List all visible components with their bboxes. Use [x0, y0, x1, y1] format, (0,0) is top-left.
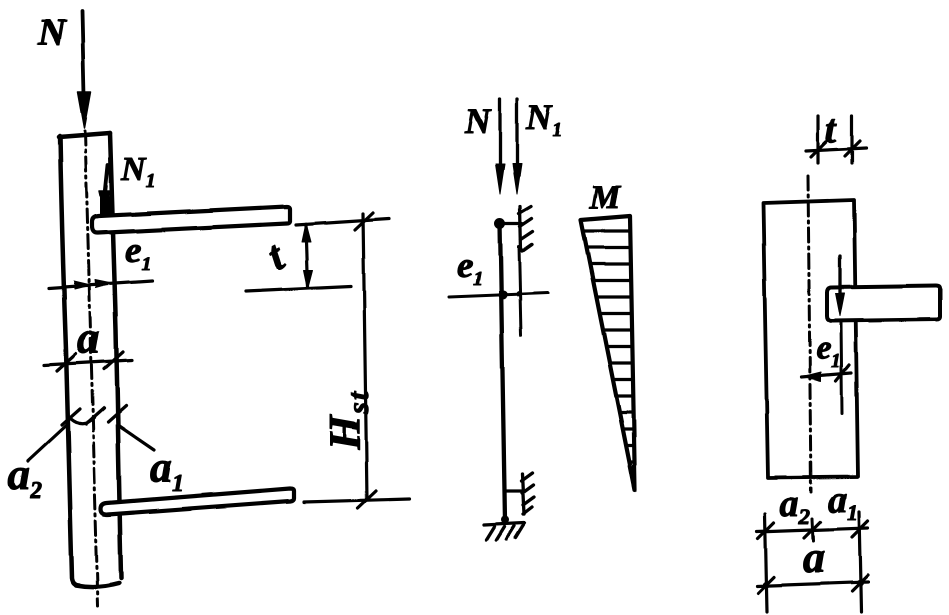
- t dimension (section): extension lines and dim line: [806, 116, 866, 163]
- section centerline (dash-dot): [808, 176, 811, 492]
- svg-text:N1: N1: [120, 151, 156, 192]
- svg-text:a2: a2: [780, 483, 810, 529]
- svg-text:e1: e1: [457, 245, 483, 290]
- beam entering section: [827, 286, 940, 322]
- top support link and hatching: [500, 206, 533, 251]
- ink blobs at a-dim ends: [763, 582, 770, 589]
- t dimension vertical line with arrows: [302, 223, 313, 289]
- svg-text:a: a: [77, 312, 100, 363]
- lower side support with hatching: [505, 473, 534, 514]
- blob at N1 line crossing: [516, 291, 522, 297]
- svg-text:Hst: Hst: [320, 390, 375, 451]
- moment diagram triangle: [581, 216, 635, 490]
- svg-text:e1: e1: [816, 330, 841, 372]
- load arrow into beam: [836, 256, 845, 316]
- svg-text:t: t: [260, 233, 293, 280]
- leader line to a1: [119, 426, 154, 450]
- force N line with arrowhead: [496, 99, 505, 194]
- Hst dimension line: [304, 213, 409, 508]
- svg-text:t: t: [825, 106, 838, 151]
- e1 dimension line (left): [49, 280, 152, 289]
- svg-text:M: M: [589, 179, 622, 216]
- e1 dimension line (section): [801, 365, 851, 381]
- tick marks row (a1/a2 split at column axis): [62, 406, 126, 425]
- dimension line a with oblique ticks: [757, 575, 868, 593]
- centerline tick at a2/a1 dim: [812, 519, 813, 541]
- svg-text:e1: e1: [125, 230, 151, 275]
- lower corbel beam: [101, 489, 294, 515]
- force N1 small arrow: [100, 165, 111, 211]
- blob at member bottom: [501, 516, 509, 524]
- top node (hinge): [495, 218, 506, 229]
- force action line below beam: [841, 322, 842, 413]
- node at e1 crossing: [499, 291, 508, 300]
- e1 cross line (scheme): [449, 293, 548, 297]
- column centerline (dash-dot): [85, 131, 98, 606]
- svg-text:N: N: [464, 101, 493, 141]
- upper corbel beam: [92, 207, 290, 234]
- left extension line: [765, 514, 767, 612]
- moment diagram hatching: [583, 231, 634, 462]
- right extension line: [859, 512, 861, 612]
- svg-text:N1: N1: [525, 97, 562, 141]
- dimension line a with oblique ticks: [44, 352, 132, 371]
- svg-text:a2: a2: [8, 450, 42, 504]
- ink blob at N1/beam junction: [100, 192, 113, 217]
- leader line to a2: [28, 424, 68, 461]
- bottom hinge support with hatching: [484, 523, 524, 540]
- svg-text:a: a: [803, 533, 825, 582]
- t dimension: bottom reference line: [246, 286, 351, 291]
- svg-text:a1: a1: [150, 443, 184, 497]
- dimension line a2/a1 with oblique ticks: [757, 521, 868, 539]
- svg-text:a1: a1: [828, 479, 858, 525]
- force N1 line with arrowhead: [513, 99, 522, 194]
- N1 action line segment: [519, 246, 521, 336]
- column outline (left elevation): [59, 133, 121, 587]
- t dimension: top reference line: [296, 219, 389, 225]
- member (column axis): [500, 223, 505, 521]
- force N arrow: [78, 11, 91, 128]
- svg-text:N: N: [37, 12, 67, 54]
- column section rectangle: [763, 200, 858, 478]
